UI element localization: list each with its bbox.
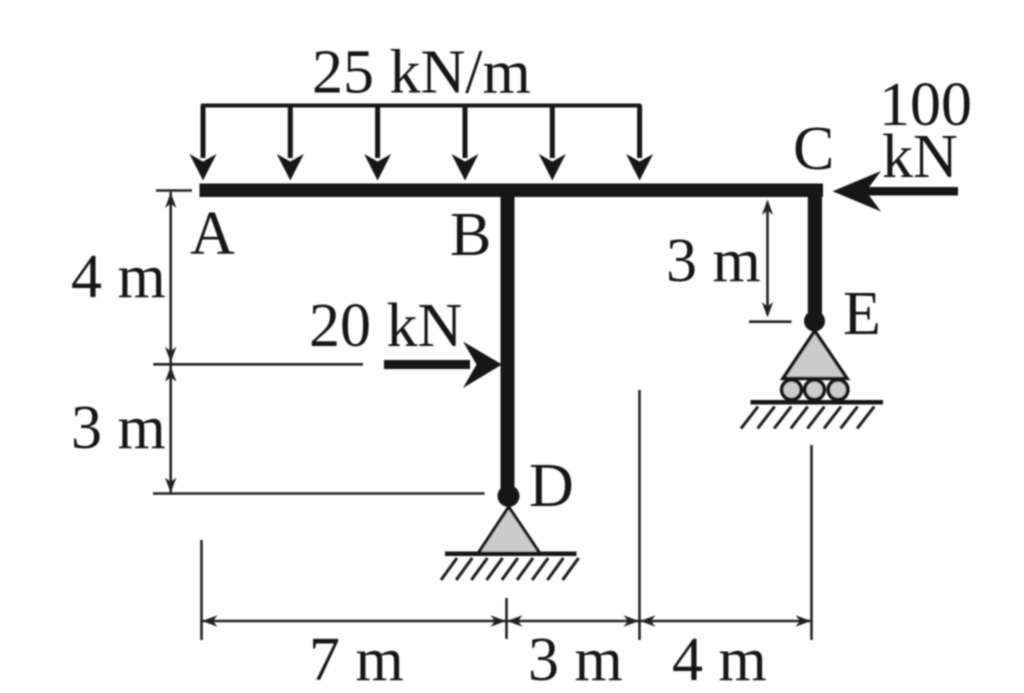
- distributed load top line: [201, 104, 641, 108]
- extension line left: [200, 540, 203, 640]
- ground line E: [751, 400, 884, 405]
- extension line D: [505, 598, 508, 639]
- left dimension ticks and line: [153, 191, 485, 494]
- load arrow 5: [539, 105, 566, 181]
- roller E 1: [782, 380, 802, 400]
- svg-text:B: B: [450, 201, 491, 269]
- svg-text:3 m: 3 m: [71, 394, 166, 462]
- load arrow 2: [277, 105, 304, 181]
- beam A-C: [200, 184, 824, 198]
- svg-text:kN: kN: [882, 123, 958, 191]
- svg-text:4 m: 4 m: [71, 243, 166, 311]
- roller E 3: [828, 380, 848, 400]
- hatching D: [441, 558, 579, 580]
- svg-text:4 m: 4 m: [672, 626, 767, 693]
- svg-text:A: A: [190, 200, 235, 268]
- ground line D: [445, 552, 577, 557]
- svg-text:7 m: 7 m: [309, 626, 404, 693]
- node D: [498, 485, 520, 507]
- load arrow 4: [452, 105, 479, 181]
- svg-text:3 m: 3 m: [666, 227, 761, 295]
- roller support E triangle: [783, 331, 847, 379]
- bottom dimension arrows: [202, 615, 811, 626]
- bottom dimension line: [202, 620, 812, 623]
- force 20 kN arrow: [384, 342, 502, 389]
- svg-text:D: D: [529, 452, 574, 520]
- svg-text:E: E: [843, 280, 881, 348]
- svg-text:20 kN: 20 kN: [309, 292, 462, 360]
- svg-text:C: C: [793, 115, 834, 183]
- node E: [804, 311, 825, 332]
- force 100 kN arrow: [833, 171, 959, 212]
- hatching E: [741, 407, 874, 429]
- load arrow 1: [190, 105, 217, 181]
- roller E 2: [805, 380, 825, 400]
- extension line right: [810, 445, 813, 640]
- column C-E: [808, 196, 822, 321]
- load arrow 3: [364, 105, 391, 181]
- load arrow 6: [626, 105, 653, 181]
- pin support D triangle: [478, 507, 540, 554]
- column B-D: [501, 196, 515, 496]
- svg-text:25 kN/m: 25 kN/m: [312, 39, 531, 107]
- left dimension arrows: [165, 193, 176, 494]
- svg-text:3 m: 3 m: [528, 626, 623, 693]
- extension line middle: [638, 390, 641, 640]
- right dimension 3 m line: [749, 200, 792, 322]
